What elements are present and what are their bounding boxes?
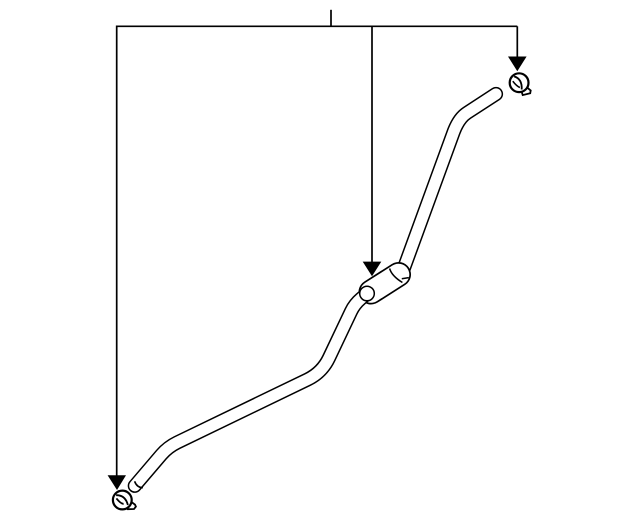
- arrowhead right: [508, 57, 527, 72]
- clamp bottom-left: [113, 491, 136, 510]
- arrowhead middle: [363, 262, 382, 277]
- leader middle vertical: [371, 26, 373, 262]
- leader top horizontal: [117, 25, 518, 27]
- hose P1 lower tube outline: [135, 294, 367, 486]
- callout tick label 1: [330, 10, 332, 27]
- hose open end rim arc: [135, 481, 143, 487]
- capsule cap line: [402, 278, 409, 279]
- capsule seam: [390, 269, 403, 283]
- arrowhead left: [108, 475, 126, 490]
- leader left vertical: [116, 26, 118, 477]
- hose P1 upper tube outline: [403, 94, 497, 272]
- clamp top-right: [510, 73, 531, 95]
- leader right vertical: [516, 26, 518, 57]
- hose connector capsule: [371, 275, 399, 293]
- hose cross-section circle at capsule end: [360, 286, 375, 301]
